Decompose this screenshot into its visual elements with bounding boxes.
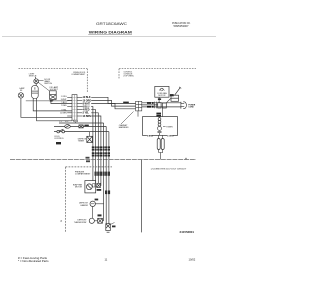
wire block to connector pin2: [91, 100, 135, 106]
wire block down riser 4: [91, 116, 101, 186]
heater leads: [159, 135, 163, 138]
svg-text:CORD: CORD: [188, 106, 194, 108]
bottom edge terminal labels: [147, 134, 174, 137]
riser labels row 2: [92, 152, 110, 156]
lamp L1: [18, 93, 23, 98]
blob under cold control: [56, 142, 61, 144]
svg-text:10/02: 10/02: [189, 257, 196, 261]
svg-text:7 RED: 7 RED: [61, 105, 67, 107]
wire mid row 1: [59, 122, 104, 124]
rail 3: [142, 106, 182, 108]
wire door switch second lead: [37, 98, 72, 121]
riser labels row 1: [92, 146, 110, 150]
wire junction to block: [51, 101, 72, 104]
overload device: [162, 103, 166, 108]
svg-text:11 BRN: 11 BRN: [60, 112, 67, 114]
door switch (capsule): [32, 86, 39, 99]
thermostat connector X3: [98, 218, 103, 223]
label defrost thermostat: [74, 220, 88, 224]
svg-text:COMPARTMENT: COMPARTMENT: [71, 73, 86, 76]
svg-text:(TOP VIEW): (TOP VIEW): [124, 76, 134, 78]
riser lines 5-7: [104, 123, 109, 224]
freezer compartment dashed top: [66, 166, 113, 168]
svg-text:5 BLU: 5 BLU: [61, 102, 67, 104]
svg-text:HARNESS: HARNESS: [119, 126, 129, 129]
timer connector X2: [87, 136, 93, 142]
riser label blobs mid: [105, 191, 107, 195]
timer label pointer: [163, 126, 166, 128]
wire fan box to rail: [158, 97, 160, 103]
wire to relay: [166, 98, 171, 103]
wire color labels right of block: [83, 96, 92, 118]
right return wire: [141, 160, 143, 233]
condenser fan icon: [159, 88, 164, 91]
svg-text:WIRING DIAGRAM: WIRING DIAGRAM: [89, 31, 133, 35]
wire heater down: [92, 207, 94, 219]
terminal block bottom tab: [74, 120, 78, 122]
svg-text:* = Non-Illustrated Parts: * = Non-Illustrated Parts: [18, 260, 49, 263]
label evap fan motor: [73, 184, 83, 189]
svg-text:3 WHT: 3 WHT: [61, 99, 68, 101]
label power cord: [188, 104, 195, 108]
defrost heater squiggle: [91, 203, 94, 205]
wire S1 to door switch: [35, 84, 37, 86]
evaporator fan motor: [86, 184, 95, 190]
label BLK near relay: [170, 94, 174, 96]
footnote mark left lower: [86, 160, 90, 162]
fan lead blob: [97, 189, 102, 191]
riser labels row 3: [95, 172, 111, 176]
label above X3: [98, 214, 102, 216]
title underline: [88, 34, 132, 36]
defrost thermostat circle: [89, 218, 94, 223]
blob under fan box: [158, 98, 161, 100]
wire stubs into block: [67, 97, 72, 116]
wire stub to light switch: [35, 77, 37, 79]
label light switch: [29, 73, 37, 77]
heater wire to riser: [95, 203, 103, 205]
wire X2 to row: [89, 132, 91, 137]
inline connector X1: [79, 125, 83, 128]
rail labels: [147, 102, 154, 108]
wire block down riser 1: [91, 107, 93, 181]
cabinet dashed right box left edge: [118, 69, 120, 80]
svg-text:14 BRN: 14 BRN: [83, 115, 92, 118]
footer legend: [18, 257, 49, 263]
ground rail: [10, 159, 196, 161]
wire lamp to terminal block: [21, 98, 72, 117]
cord heater capsule 1: [157, 139, 160, 150]
svg-text:MOTOR: MOTOR: [158, 95, 166, 97]
heater lead down: [159, 150, 161, 160]
svg-text:1 ORG: 1 ORG: [61, 96, 67, 98]
run capacitor bars: [154, 102, 156, 109]
cold control switch: [57, 129, 65, 133]
defrost heater circle: [90, 201, 95, 206]
wire color labels left of block: [60, 96, 67, 115]
wire mid row 3: [54, 131, 109, 133]
svg-text:TIMER: TIMER: [78, 140, 85, 142]
svg-text:TIMER: TIMER: [166, 127, 173, 129]
footnote mark left: [86, 157, 90, 159]
svg-text:4 ORG: 4 ORG: [167, 134, 174, 137]
rail 2: [142, 104, 158, 106]
callout label: [119, 124, 129, 129]
thermostat switch (oval): [65, 125, 71, 129]
evaporator fan motor box: [85, 181, 96, 193]
svg-text:CONTROL: CONTROL: [54, 138, 65, 140]
wire from S1 to note: [39, 79, 44, 81]
label GRN: [112, 226, 116, 228]
svg-text:9 YEL: 9 YEL: [61, 109, 66, 111]
wire socket to junction: [52, 99, 54, 101]
tab wire to mid row: [75, 122, 77, 123]
label defrost timer small: [78, 138, 88, 142]
publication number header: [172, 21, 191, 28]
wire block down riser 2: [91, 110, 95, 184]
terminal block pin ticks: [72, 97, 76, 116]
svg-text:SWITCH: SWITCH: [44, 83, 52, 85]
ground box stub: [110, 223, 114, 225]
rail 1 connector to plug: [142, 102, 182, 104]
labels above timer box: [156, 113, 161, 115]
defrost timer box: [143, 117, 178, 136]
label cold control: [54, 136, 65, 140]
freezer compartment dashed left edge: [65, 167, 67, 232]
overload protector slant: [175, 87, 182, 95]
fan connector X4: [97, 183, 101, 187]
label lamp: [19, 87, 25, 92]
cabinet dashed outline left segment: [19, 68, 88, 70]
label fф lamp socket: [50, 86, 59, 91]
heater lead down 2: [161, 150, 163, 153]
wire block to connector pin1: [91, 97, 135, 103]
label 9 BLK: [123, 102, 129, 104]
lamp socket J1: [50, 91, 57, 100]
svg-text:241553801: 241553801: [180, 230, 195, 234]
terminal block TB1: [72, 95, 77, 121]
wire rail to timer box: [161, 107, 163, 117]
wire connector to timer box: [137, 111, 139, 117]
relay box RY1: [171, 95, 179, 101]
svg-text:GRT18C6AWC: GRT18C6AWC: [96, 22, 128, 26]
lamp side lead: [26, 99, 72, 102]
svg-text:5995353007: 5995353007: [174, 24, 190, 28]
cord heater capsule 2: [161, 139, 164, 150]
capacitor body: [158, 103, 161, 108]
header rule: [2, 36, 216, 38]
label fresh food compartment: [71, 72, 86, 76]
wire X3 to riser: [102, 220, 103, 222]
wire thermostat to connector: [94, 220, 97, 222]
cabinet dashed outline right segment: [119, 68, 196, 70]
svg-text:THERMOSTAT: THERMOSTAT: [74, 221, 88, 224]
label BLK mid row: [84, 125, 88, 127]
label defrost heater: [79, 203, 89, 207]
svg-text:(#) DENOTES 115 VOLT CIRCUIT: (#) DENOTES 115 VOLT CIRCUIT: [151, 168, 187, 170]
light switch S1: [34, 79, 39, 84]
label cond fan motor: [157, 92, 167, 97]
power cord plug: [181, 102, 187, 109]
ground terminal box: [106, 224, 111, 233]
callout line to connector: [121, 112, 134, 125]
label above heater: [95, 199, 99, 201]
label door jamb switch: [44, 79, 52, 85]
labels above mid row: [60, 121, 70, 123]
svg-text:COMPARTMENT: COMPARTMENT: [75, 173, 91, 176]
wire mid row 2: [54, 125, 106, 127]
svg-text:HEATER: HEATER: [80, 204, 88, 207]
condenser fan motor box: [155, 86, 169, 97]
cabinet dashed left box right edge: [86, 69, 88, 93]
wire stubs out of block right: [77, 97, 82, 116]
label freezer compartment: [75, 171, 91, 175]
wire block down riser 3: [91, 113, 98, 187]
junction blob: [50, 100, 53, 102]
timer motor chain: [158, 117, 162, 136]
wire door switch to terminal block: [33, 98, 72, 111]
connector CON2: [136, 101, 142, 111]
svg-text:8 BRN: 8 BRN: [147, 135, 154, 137]
label control console: [124, 71, 134, 77]
wire block to connector pin3: [91, 104, 135, 109]
wire from S1 to lamp box: [38, 82, 49, 91]
svg-text:MOTOR: MOTOR: [75, 187, 83, 189]
